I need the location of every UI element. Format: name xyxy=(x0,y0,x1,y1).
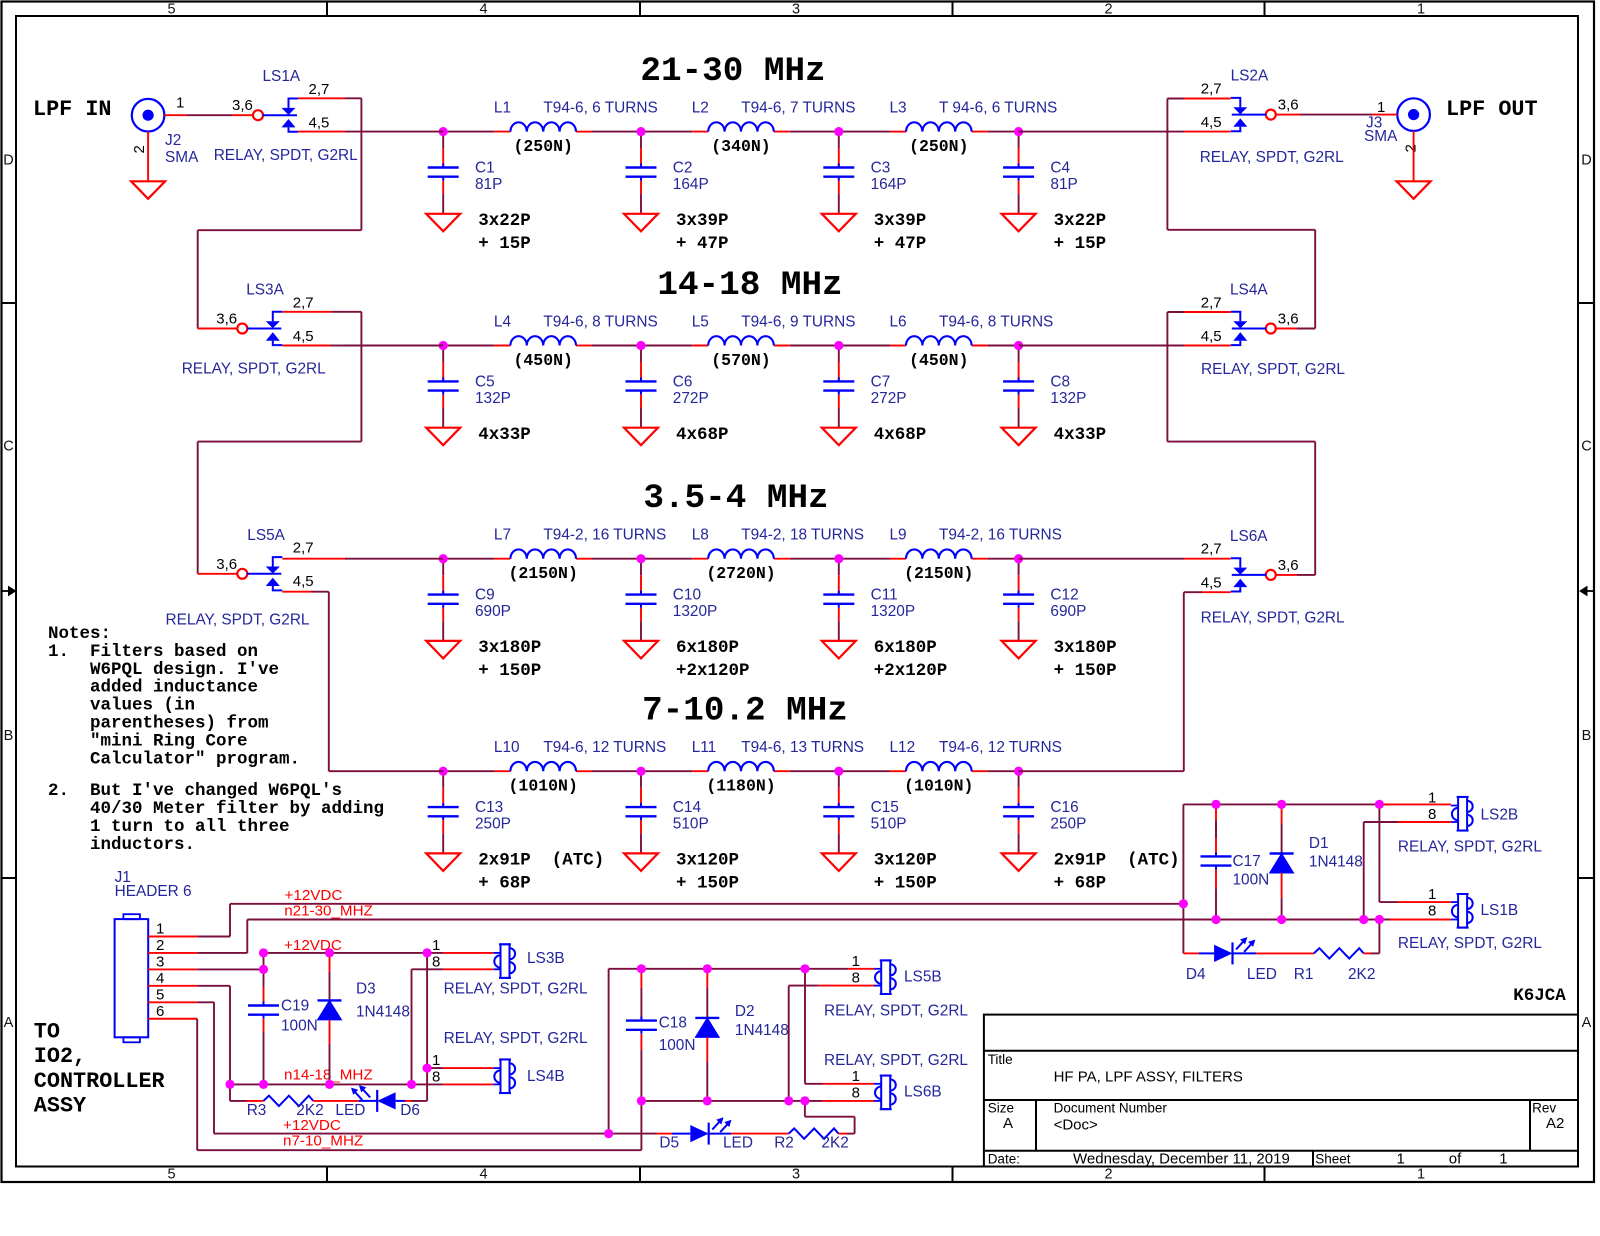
svg-text:+2x120P: +2x120P xyxy=(676,661,750,681)
LED D6 xyxy=(335,1085,420,1119)
wire LS1B pin1 from +12VDC top rail xyxy=(1379,806,1451,903)
capacitor C1 81P xyxy=(428,132,503,214)
inductor L7 T94-2, 16 TURNS (2150N) xyxy=(494,527,666,584)
svg-text:1: 1 xyxy=(852,953,860,970)
svg-text:4,5: 4,5 xyxy=(1201,114,1222,131)
svg-text:3x180P: 3x180P xyxy=(478,638,541,658)
svg-text:C8: C8 xyxy=(1050,374,1070,391)
resistor R2 2K2 xyxy=(731,1128,849,1151)
wire LS3A NO contact to row2 main line xyxy=(282,345,443,347)
svg-text:4,5: 4,5 xyxy=(1201,328,1222,345)
svg-text:1320P: 1320P xyxy=(871,603,916,620)
svg-text:L1: L1 xyxy=(494,100,511,117)
svg-text:A2: A2 xyxy=(1546,1115,1564,1132)
svg-text:C19: C19 xyxy=(281,998,309,1015)
svg-text:100N: 100N xyxy=(281,1017,318,1034)
svg-text:L3: L3 xyxy=(890,100,907,117)
svg-text:+ 47P: + 47P xyxy=(676,234,729,254)
svg-text:LPF OUT: LPF OUT xyxy=(1446,97,1538,122)
svg-text:RELAY, SPDT, G2RL: RELAY, SPDT, G2RL xyxy=(444,980,588,997)
svg-text:1: 1 xyxy=(1417,2,1425,18)
svg-text:+ 150P: + 150P xyxy=(874,874,937,894)
wire J2 pin2 to ground xyxy=(147,132,149,182)
value note for C6 xyxy=(676,425,729,445)
svg-text:4x68P: 4x68P xyxy=(874,425,927,445)
ground xyxy=(426,853,460,871)
svg-text:1: 1 xyxy=(1428,886,1436,903)
inductor L12 T94-6, 12 TURNS (1010N) xyxy=(890,739,1062,796)
svg-text:L8: L8 xyxy=(692,527,709,544)
wire n21-30_MHZ rail from J1 pin2 to LS1B/LS2B group xyxy=(247,919,1451,921)
wire J2 pin1 to LS1A common xyxy=(164,114,253,116)
svg-text:RELAY, SPDT, G2RL: RELAY, SPDT, G2RL xyxy=(1398,935,1542,952)
ground xyxy=(1002,641,1036,659)
svg-text:C13: C13 xyxy=(475,799,503,816)
svg-text:1N4148: 1N4148 xyxy=(356,1003,410,1020)
wire J1 pin3 to +12VDC branch node xyxy=(148,968,263,970)
junction: 21-30 MHz node 3 xyxy=(834,127,843,136)
inductor L5 T94-6, 9 TURNS (570N) xyxy=(692,314,856,371)
wire row2 main line to LS4A NO contact xyxy=(1019,345,1231,347)
junction nodes of 7-10 driver xyxy=(604,1129,613,1138)
connector J1 HEADER 6 xyxy=(115,869,192,1042)
svg-text:RELAY, SPDT, G2RL: RELAY, SPDT, G2RL xyxy=(444,1030,588,1047)
svg-text:+12VDC: +12VDC xyxy=(285,887,343,904)
svg-text:C7: C7 xyxy=(871,374,891,391)
junction: 3.5-4 MHz node 1 xyxy=(439,554,448,563)
relay LS1A SPDT contact xyxy=(214,68,358,164)
junction: 14-18 MHz node 4 xyxy=(1014,341,1023,350)
relay LS6A SPDT contact xyxy=(1201,528,1345,627)
diode D3 1N4148 xyxy=(318,953,410,1085)
svg-text:R2: R2 xyxy=(774,1135,794,1152)
capacitor C18 100N xyxy=(626,969,696,1101)
svg-text:1: 1 xyxy=(1428,790,1436,807)
svg-text:D4: D4 xyxy=(1186,966,1206,983)
svg-text:L2: L2 xyxy=(692,100,709,117)
svg-text:3x120P: 3x120P xyxy=(874,851,937,871)
capacitor C4 81P xyxy=(1003,132,1078,214)
svg-text:C14: C14 xyxy=(673,799,702,816)
svg-text:250P: 250P xyxy=(1050,816,1086,833)
svg-text:1N4148: 1N4148 xyxy=(1309,854,1363,871)
svg-text:272P: 272P xyxy=(871,390,907,407)
svg-text:4x33P: 4x33P xyxy=(1054,425,1107,445)
connector J3 SMA (LPF output) xyxy=(1364,98,1430,152)
svg-text:L10: L10 xyxy=(494,739,520,756)
capacitor C10 1320P xyxy=(626,559,718,641)
ground xyxy=(624,641,658,659)
value note for C7 xyxy=(874,425,927,445)
svg-text:81P: 81P xyxy=(1050,176,1077,193)
svg-text:L7: L7 xyxy=(494,527,511,544)
svg-text:+12VDC: +12VDC xyxy=(283,1117,341,1134)
junction: 21-30 MHz node 2 xyxy=(636,127,645,136)
svg-text:C12: C12 xyxy=(1050,587,1078,604)
svg-text:(2150N): (2150N) xyxy=(509,564,578,583)
relay coil LS6B xyxy=(824,1052,968,1109)
svg-text:ASSY: ASSY xyxy=(34,1094,87,1119)
capacitor C17 100N xyxy=(1201,804,1270,919)
svg-text:1: 1 xyxy=(1417,1167,1425,1183)
svg-text:(250N): (250N) xyxy=(513,137,572,156)
svg-text:690P: 690P xyxy=(1050,603,1086,620)
svg-text:A: A xyxy=(4,1015,14,1031)
capacitor C8 132P xyxy=(1003,346,1086,428)
value note for C12 xyxy=(1054,638,1117,681)
ground xyxy=(1002,853,1036,871)
svg-text:RELAY, SPDT, G2RL: RELAY, SPDT, G2RL xyxy=(1201,361,1345,378)
junction: 7-10.2 MHz node 3 xyxy=(834,767,843,776)
svg-text:L9: L9 xyxy=(890,527,907,544)
relay LS2A SPDT contact xyxy=(1200,68,1344,167)
diode D2 1N4148 xyxy=(695,969,789,1101)
svg-text:K6JCA: K6JCA xyxy=(1513,986,1566,1006)
svg-text:T94-6, 7 TURNS: T94-6, 7 TURNS xyxy=(741,100,855,117)
ground xyxy=(426,214,460,232)
inductor L4 T94-6, 8 TURNS (450N) xyxy=(494,314,658,371)
wire +12VDC rail (pin5) to LED D5 and subcircuit top rail xyxy=(214,969,874,1134)
svg-text:3: 3 xyxy=(792,2,800,18)
junction: 14-18 MHz node 1 xyxy=(439,341,448,350)
svg-text:+ 15P: + 15P xyxy=(1054,234,1107,254)
svg-text:14-18 MHz: 14-18 MHz xyxy=(657,266,842,305)
ground xyxy=(822,853,856,871)
wire LS1A NC contact to LS3A common (relay cascade left) xyxy=(198,98,362,328)
svg-text:164P: 164P xyxy=(871,176,907,193)
svg-text:T94-2, 16 TURNS: T94-2, 16 TURNS xyxy=(939,527,1062,544)
svg-text:1: 1 xyxy=(1377,99,1385,116)
wire: 3.5-4 MHz filter main line xyxy=(443,558,494,560)
inductor L3 T 94-6, 6 TURNS (250N) xyxy=(890,100,1058,157)
wire LS4B pin1 to +12VDC rail xyxy=(427,1067,493,1069)
capacitor C7 272P xyxy=(823,346,906,428)
wire LS1A NO contact to row1 main line xyxy=(298,131,443,133)
svg-text:C2: C2 xyxy=(673,160,693,177)
svg-text:SMA: SMA xyxy=(165,149,199,166)
wire J1 pin2 to n21-30_MHZ rail xyxy=(148,920,247,953)
junction: 7-10.2 MHz node 1 xyxy=(439,767,448,776)
resistor R1 2K2 xyxy=(1256,948,1375,983)
relay coil LS3B xyxy=(432,937,588,998)
wire LS5A NO contact to row4 main line (left) xyxy=(282,592,443,772)
svg-text:Title: Title xyxy=(988,1052,1013,1067)
svg-text:RELAY, SPDT, G2RL: RELAY, SPDT, G2RL xyxy=(824,1052,968,1069)
value note for C15 xyxy=(874,851,937,894)
resistor R3 2K2 with LED D6 indicator branch xyxy=(230,1084,264,1101)
capacitor C19 100N xyxy=(248,969,318,1084)
capacitor C13 250P xyxy=(428,771,511,853)
svg-text:T94-6, 8 TURNS: T94-6, 8 TURNS xyxy=(939,314,1053,331)
svg-text:LS2A: LS2A xyxy=(1231,68,1269,85)
svg-text:+ 15P: + 15P xyxy=(478,234,531,254)
svg-text:C17: C17 xyxy=(1233,853,1261,870)
LED D5 xyxy=(613,1117,753,1151)
svg-text:2,7: 2,7 xyxy=(293,540,314,557)
ground xyxy=(426,428,460,446)
wire LS5A NC contact to row3 main line xyxy=(282,558,443,560)
svg-text:LED: LED xyxy=(1247,966,1277,983)
svg-text:2x91P (ATC): 2x91P (ATC) xyxy=(1054,851,1180,871)
svg-text:LS3B: LS3B xyxy=(527,950,565,967)
svg-text:3,6: 3,6 xyxy=(216,311,237,328)
value note for C4 xyxy=(1054,211,1107,254)
svg-text:T94-2, 16 TURNS: T94-2, 16 TURNS xyxy=(543,527,666,544)
svg-text:(1180N): (1180N) xyxy=(706,777,775,796)
svg-text:L4: L4 xyxy=(494,314,512,331)
value note for C1 xyxy=(478,211,531,254)
svg-text:C4: C4 xyxy=(1050,160,1070,177)
svg-text:(450N): (450N) xyxy=(513,351,572,370)
ground xyxy=(1002,214,1036,232)
svg-text:C18: C18 xyxy=(659,1015,687,1032)
value note for C9 xyxy=(478,638,541,681)
svg-text:1: 1 xyxy=(852,1068,860,1085)
wire LS3A NC contact to LS5A common (relay cascade left) xyxy=(198,312,362,574)
svg-text:A: A xyxy=(1582,1015,1592,1031)
svg-text:(2720N): (2720N) xyxy=(706,564,775,583)
svg-text:T94-2, 18 TURNS: T94-2, 18 TURNS xyxy=(741,527,864,544)
wire row3 main line to LS6A NC contact xyxy=(1019,558,1231,560)
svg-text:2,7: 2,7 xyxy=(309,81,330,98)
capacitor C3 164P xyxy=(823,132,906,214)
svg-text:Date:: Date: xyxy=(988,1151,1020,1166)
svg-text:T 94-6, 6 TURNS: T 94-6, 6 TURNS xyxy=(939,100,1057,117)
wire J1 pin6 to n7-10_MHZ rail xyxy=(148,1019,197,1150)
svg-text:6x180P: 6x180P xyxy=(874,638,937,658)
svg-text:272P: 272P xyxy=(673,390,709,407)
relay coil LS4B xyxy=(432,1030,588,1093)
svg-text:+ 150P: + 150P xyxy=(1054,661,1117,681)
svg-text:RELAY, SPDT, G2RL: RELAY, SPDT, G2RL xyxy=(1200,149,1344,166)
svg-text:C3: C3 xyxy=(871,160,891,177)
svg-text:Size: Size xyxy=(988,1101,1014,1116)
svg-text:LS6A: LS6A xyxy=(1230,528,1268,545)
relay LS5A SPDT contact xyxy=(166,527,314,629)
svg-text:3x39P: 3x39P xyxy=(676,211,729,231)
svg-text:2,7: 2,7 xyxy=(1201,294,1222,311)
wire LS5B pin8 to coil rail xyxy=(789,986,874,1101)
svg-text:C1: C1 xyxy=(475,160,495,177)
svg-text:IO2,: IO2, xyxy=(34,1044,86,1069)
svg-text:3x180P: 3x180P xyxy=(1054,638,1117,658)
svg-text:3.5-4 MHz: 3.5-4 MHz xyxy=(643,479,828,518)
svg-text:4x68P: 4x68P xyxy=(676,425,729,445)
svg-text:L12: L12 xyxy=(890,739,916,756)
svg-text:1: 1 xyxy=(1499,1150,1507,1167)
svg-text:4,5: 4,5 xyxy=(309,115,330,132)
svg-text:L5: L5 xyxy=(692,314,709,331)
svg-text:T94-6, 8 TURNS: T94-6, 8 TURNS xyxy=(543,314,657,331)
svg-text:3x39P: 3x39P xyxy=(874,211,927,231)
svg-text:1N4148: 1N4148 xyxy=(735,1022,789,1039)
svg-text:2: 2 xyxy=(1403,144,1420,152)
diode D1 1N4148 xyxy=(1270,804,1363,919)
svg-text:C11: C11 xyxy=(871,587,898,604)
relay LS3A SPDT contact xyxy=(182,282,326,378)
label TO IO2, CONTROLLER ASSY xyxy=(34,1019,166,1118)
capacitor C16 250P xyxy=(1003,771,1086,853)
ground xyxy=(822,641,856,659)
svg-text:6x180P: 6x180P xyxy=(676,638,739,658)
value note for C5 xyxy=(478,425,531,445)
inductor L2 T94-6, 7 TURNS (340N) xyxy=(692,100,856,157)
svg-text:T94-6, 6 TURNS: T94-6, 6 TURNS xyxy=(543,100,657,117)
wire LS2A common to J3 pin1 xyxy=(1275,114,1397,116)
junction: 7-10.2 MHz node 4 xyxy=(1014,767,1023,776)
svg-text:LS2B: LS2B xyxy=(1481,806,1519,823)
wire +12VDC junction up to LS2B top rail xyxy=(1183,804,1451,903)
capacitor C6 272P xyxy=(626,346,709,428)
title block xyxy=(984,1015,1578,1168)
svg-text:LS1A: LS1A xyxy=(263,68,301,85)
svg-text:4: 4 xyxy=(479,2,487,18)
svg-text:3: 3 xyxy=(156,953,164,970)
svg-text:C: C xyxy=(1581,439,1591,455)
svg-text:4: 4 xyxy=(479,1167,487,1183)
wire LS4A NC contact to LS6A common (relay cascade right) xyxy=(1167,312,1315,575)
connector J2 SMA (LPF input) xyxy=(131,95,199,166)
svg-text:4,5: 4,5 xyxy=(293,573,314,590)
svg-text:3,6: 3,6 xyxy=(216,556,237,573)
junction: 3.5-4 MHz node 2 xyxy=(636,554,645,563)
LED D4 xyxy=(1183,937,1276,983)
svg-text:R1: R1 xyxy=(1294,966,1314,983)
capacitor C2 164P xyxy=(626,132,709,214)
svg-text:1: 1 xyxy=(1397,1150,1405,1167)
value note for C8 xyxy=(1054,425,1107,445)
wire J1 pin5 to +12VDC rail (lower) xyxy=(148,1002,214,1133)
capacitor C15 510P xyxy=(823,771,906,853)
svg-text:inductors.: inductors. xyxy=(48,835,195,855)
svg-text:D: D xyxy=(1581,153,1591,169)
svg-text:+ 68P: + 68P xyxy=(1054,874,1107,894)
svg-text:4: 4 xyxy=(156,970,164,987)
svg-text:2,7: 2,7 xyxy=(293,294,314,311)
wire R2 to coil rail xyxy=(805,1101,855,1134)
svg-text:LS5B: LS5B xyxy=(904,969,942,986)
junction: 14-18 MHz node 3 xyxy=(834,341,843,350)
inductor L10 T94-6, 12 TURNS (1010N) xyxy=(494,739,666,796)
svg-text:D6: D6 xyxy=(400,1102,420,1119)
junction: 7-10.2 MHz node 2 xyxy=(636,767,645,776)
svg-text:D2: D2 xyxy=(735,1003,755,1020)
svg-text:1: 1 xyxy=(432,937,440,954)
svg-text:C5: C5 xyxy=(475,374,495,391)
svg-text:of: of xyxy=(1449,1150,1462,1167)
svg-text:SMA: SMA xyxy=(1364,128,1398,145)
svg-text:<Doc>: <Doc> xyxy=(1054,1117,1098,1134)
wire: 14-18 MHz filter main line xyxy=(443,345,494,347)
junction: 3.5-4 MHz node 3 xyxy=(834,554,843,563)
svg-text:Document Number: Document Number xyxy=(1054,1101,1168,1116)
relay LS4A SPDT contact xyxy=(1201,282,1346,379)
ground xyxy=(624,428,658,446)
svg-text:2K2: 2K2 xyxy=(1348,966,1375,983)
relay coil LS5B xyxy=(824,953,968,1020)
svg-text:8: 8 xyxy=(852,970,860,987)
svg-text:3,6: 3,6 xyxy=(232,97,253,114)
svg-text:8: 8 xyxy=(1428,903,1436,920)
wire LS6A NO contact to row4 main line (right) xyxy=(1019,592,1231,771)
svg-text:HF PA, LPF ASSY, FILTERS: HF PA, LPF ASSY, FILTERS xyxy=(1054,1069,1243,1086)
svg-text:6: 6 xyxy=(156,1003,164,1020)
svg-text:8: 8 xyxy=(432,953,440,970)
svg-text:510P: 510P xyxy=(673,816,709,833)
svg-text:1: 1 xyxy=(156,921,164,938)
svg-text:2,7: 2,7 xyxy=(1201,80,1222,97)
svg-text:Calculator" program.: Calculator" program. xyxy=(48,749,300,769)
svg-text:4x33P: 4x33P xyxy=(478,425,531,445)
svg-text:L6: L6 xyxy=(890,314,907,331)
svg-text:2: 2 xyxy=(1104,2,1112,18)
svg-text:LS4A: LS4A xyxy=(1230,282,1268,299)
svg-text:C6: C6 xyxy=(673,374,693,391)
svg-text:2x91P (ATC): 2x91P (ATC) xyxy=(478,851,604,871)
svg-text:n21-30_MHZ: n21-30_MHZ xyxy=(284,903,373,920)
svg-text:LS1B: LS1B xyxy=(1481,902,1519,919)
ground xyxy=(426,641,460,659)
value note for C10 xyxy=(676,638,750,681)
svg-text:T94-6, 13 TURNS: T94-6, 13 TURNS xyxy=(741,739,864,756)
svg-text:LS4B: LS4B xyxy=(527,1068,565,1085)
junction: 21-30 MHz node 4 xyxy=(1014,127,1023,136)
svg-text:690P: 690P xyxy=(475,603,511,620)
wire LS2A NC contact to LS4A common (relay cascade right) xyxy=(1167,99,1315,329)
wire LS6B pin1 to +12VDC top rail xyxy=(805,969,874,1084)
svg-text:Rev: Rev xyxy=(1532,1101,1556,1116)
junction: 14-18 MHz node 2 xyxy=(636,341,645,350)
note: designer notes text xyxy=(48,624,384,855)
svg-text:21-30 MHz: 21-30 MHz xyxy=(640,52,825,91)
inductor L1 T94-6, 6 TURNS (250N) xyxy=(494,100,658,157)
svg-text:7-10.2 MHz: 7-10.2 MHz xyxy=(642,692,848,731)
svg-text:B: B xyxy=(1582,728,1592,744)
svg-text:RELAY, SPDT, G2RL: RELAY, SPDT, G2RL xyxy=(214,147,358,164)
wire R3 to LED D6 xyxy=(313,1100,358,1102)
svg-text:LS5A: LS5A xyxy=(247,527,285,544)
wire row1 main line to LS2A NO contact xyxy=(1019,131,1231,133)
svg-text:n7-10_MHZ: n7-10_MHZ xyxy=(283,1132,363,1149)
svg-text:CONTROLLER: CONTROLLER xyxy=(34,1069,166,1094)
svg-text:3,6: 3,6 xyxy=(1278,97,1299,114)
svg-text:164P: 164P xyxy=(673,176,709,193)
svg-text:B: B xyxy=(4,728,14,744)
ground xyxy=(624,214,658,232)
capacitor C12 690P xyxy=(1003,559,1086,641)
svg-text:1320P: 1320P xyxy=(673,603,718,620)
ground xyxy=(822,214,856,232)
svg-text:100N: 100N xyxy=(659,1037,696,1054)
inductor L6 T94-6, 8 TURNS (450N) xyxy=(890,314,1054,371)
svg-text:8: 8 xyxy=(1428,806,1436,823)
svg-text:R3: R3 xyxy=(247,1102,267,1119)
svg-text:Sheet: Sheet xyxy=(1315,1151,1351,1166)
wire +12VDC rail from J1 pin1 to LS1B/LS2B group xyxy=(230,903,1183,905)
value note for C13 xyxy=(478,851,604,894)
svg-text:5: 5 xyxy=(167,2,175,18)
junction: 21-30 MHz node 1 xyxy=(439,127,448,136)
capacitor C11 1320P xyxy=(823,559,915,641)
inductor L11 T94-6, 13 TURNS (1180N) xyxy=(692,739,864,796)
svg-text:Wednesday, December 11, 2019: Wednesday, December 11, 2019 xyxy=(1073,1150,1290,1167)
value note for C3 xyxy=(874,211,927,254)
svg-text:4,5: 4,5 xyxy=(1201,574,1222,591)
inductor L8 T94-2, 18 TURNS (2720N) xyxy=(692,527,864,584)
wire n14-18_MHZ rail to LS4B pin8 xyxy=(230,1083,493,1085)
svg-text:D3: D3 xyxy=(356,980,376,997)
svg-text:5: 5 xyxy=(167,1167,175,1183)
